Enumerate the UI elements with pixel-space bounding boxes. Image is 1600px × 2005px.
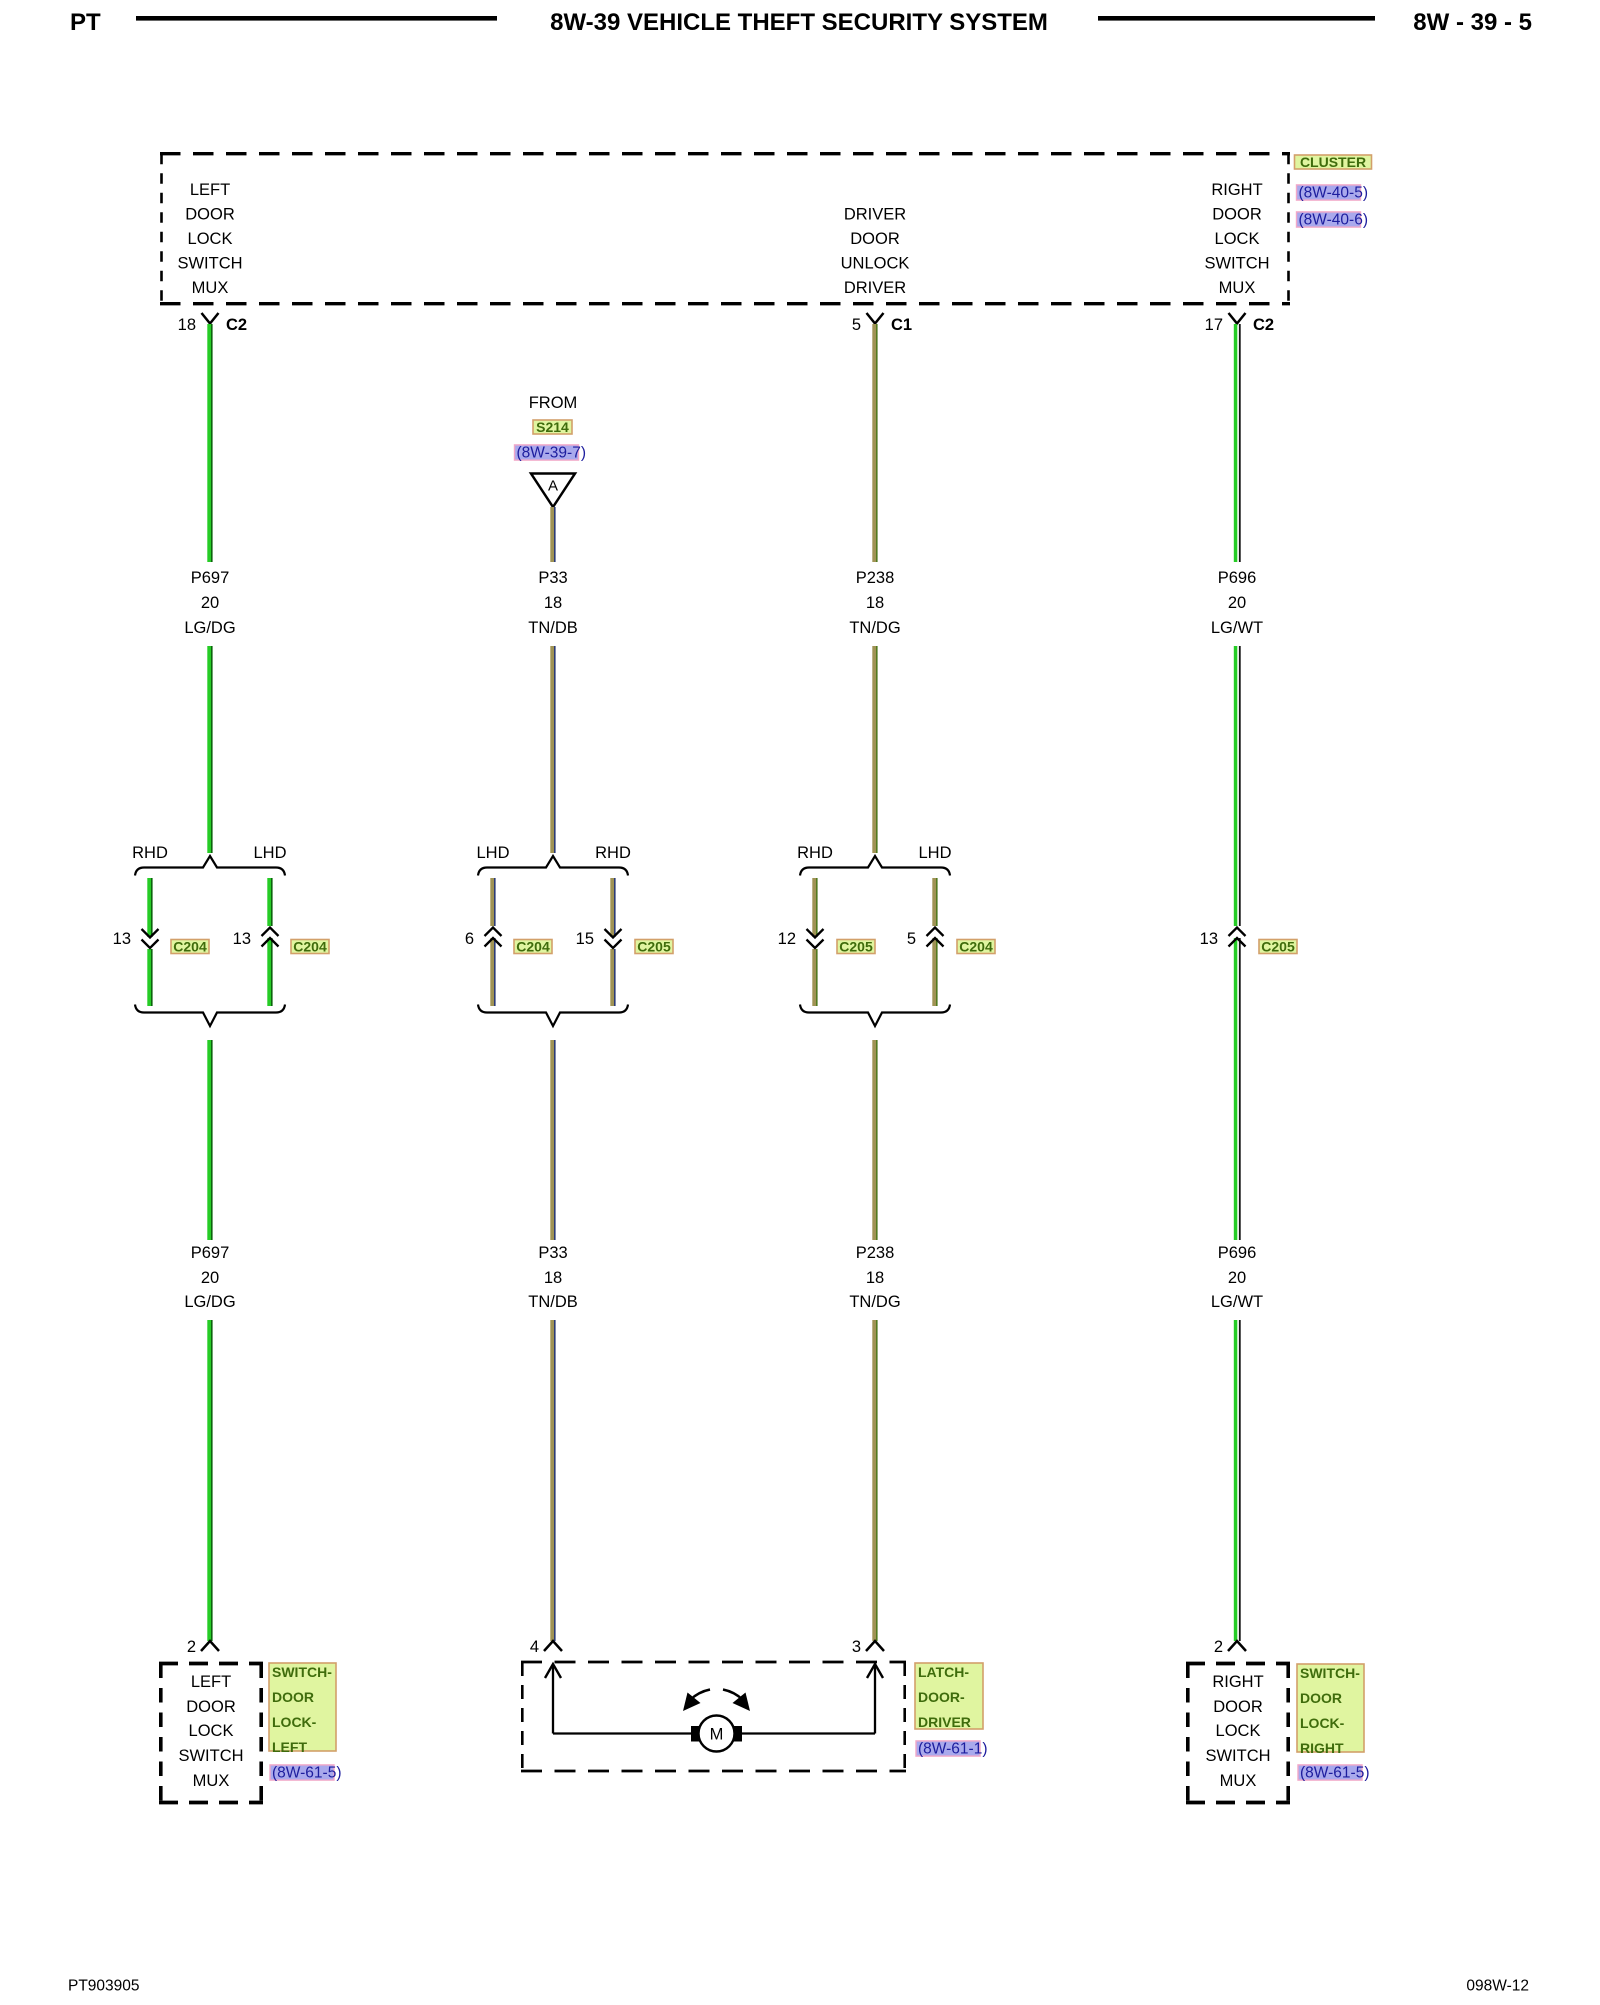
svg-text:2: 2 [1214, 1638, 1223, 1656]
svg-text:SWITCH: SWITCH [1205, 1747, 1270, 1765]
header page id PT [70, 9, 101, 36]
svg-text:P238: P238 [856, 569, 895, 587]
component label C205 [1259, 939, 1297, 955]
svg-text:(8W-61-5): (8W-61-5) [1300, 1765, 1369, 1782]
svg-text:TN/DB: TN/DB [528, 619, 578, 637]
svg-text:MUX: MUX [1219, 279, 1256, 297]
brace merge bottom P238 [800, 1005, 950, 1027]
wire P238 upper segment (TN/DG) [872, 324, 877, 562]
wire label P697 20 LG/DG (upper) [184, 569, 235, 637]
svg-text:LOCK: LOCK [1215, 230, 1260, 248]
page ref (8W-61-1) [916, 1741, 987, 1758]
wire P697 bottom segment (LG/DG) [207, 1320, 212, 1641]
component label C204 [957, 939, 995, 955]
svg-text:DOOR: DOOR [850, 230, 900, 248]
wire P33 upper segment (TN/DB) [550, 507, 555, 562]
svg-text:20: 20 [1228, 1269, 1246, 1287]
svg-text:SWITCH: SWITCH [178, 1747, 243, 1765]
wire P696 mid segment (LG/WT) [1234, 646, 1241, 1240]
svg-text:CLUSTER: CLUSTER [1300, 154, 1366, 170]
svg-text:LHD: LHD [476, 844, 509, 862]
svg-text:LOCK-: LOCK- [1300, 1715, 1345, 1731]
svg-text:LOCK: LOCK [188, 230, 233, 248]
svg-text:SWITCH: SWITCH [177, 255, 242, 273]
svg-text:LG/WT: LG/WT [1211, 1293, 1263, 1311]
branch wire RHD (TN/DB) [610, 878, 615, 1006]
wire label P696 20 LG/WT (upper) [1211, 569, 1263, 637]
component label SWITCH-DOOR LOCK-LEFT [269, 1663, 336, 1755]
svg-text:(8W-40-6): (8W-40-6) [1299, 212, 1368, 229]
svg-text:DOOR: DOOR [185, 206, 235, 224]
svg-text:RIGHT: RIGHT [1212, 1673, 1263, 1691]
header page number [1413, 9, 1532, 36]
svg-text:DOOR: DOOR [272, 1689, 314, 1705]
svg-text:P696: P696 [1218, 1244, 1257, 1262]
svg-text:DOOR: DOOR [1213, 1698, 1263, 1716]
svg-text:LEFT: LEFT [191, 1673, 231, 1691]
wire P33 lower segment (TN/DB) [550, 1040, 555, 1240]
component label S214 [533, 419, 572, 435]
svg-text:RHD: RHD [595, 844, 631, 862]
inline connector 15 C205 (down) [576, 929, 622, 948]
wire label P697 20 LG/DG (lower) [184, 1244, 235, 1311]
LHD label [476, 844, 509, 862]
svg-text:C1: C1 [891, 316, 912, 334]
wire P33 mid segment (TN/DB) [550, 646, 555, 853]
svg-text:LHD: LHD [253, 844, 286, 862]
connector pin 18 C2 [178, 313, 247, 334]
svg-text:8W - 39 - 5: 8W - 39 - 5 [1413, 9, 1532, 36]
footer left [68, 1978, 140, 1995]
page ref (8W-39-7) [515, 445, 586, 462]
svg-text:FROM: FROM [529, 394, 578, 412]
left door lock switch mux dashed box [159, 1664, 263, 1803]
svg-text:MUX: MUX [1220, 1772, 1257, 1790]
component label C205 [837, 939, 875, 955]
svg-text:PT903905: PT903905 [68, 1978, 140, 1995]
svg-text:DOOR: DOOR [1300, 1690, 1342, 1706]
page ref (8W-61-5) left [270, 1765, 341, 1782]
RHD label [797, 844, 833, 862]
svg-text:LEFT: LEFT [190, 181, 230, 199]
wire label P238 18 TN/DG (lower) [849, 1244, 900, 1311]
component label CLUSTER [1295, 154, 1372, 170]
svg-text:5: 5 [907, 930, 916, 948]
svg-text:12: 12 [778, 930, 796, 948]
LHD label [918, 844, 951, 862]
svg-text:MUX: MUX [192, 279, 229, 297]
footer right [1466, 1978, 1529, 1995]
connector pin 17 C2 [1205, 313, 1274, 334]
page ref (8W-61-5) right [1298, 1765, 1369, 1782]
motor M1 [691, 1716, 742, 1752]
svg-text:P33: P33 [538, 569, 567, 587]
svg-text:RIGHT: RIGHT [1300, 1740, 1344, 1756]
svg-text:4: 4 [530, 1638, 539, 1656]
brace merge bottom P697 [135, 1005, 285, 1027]
svg-text:MUX: MUX [193, 1772, 230, 1790]
svg-text:LG/DG: LG/DG [184, 1293, 235, 1311]
svg-text:13: 13 [1200, 930, 1218, 948]
svg-text:20: 20 [201, 594, 219, 612]
wire P238 mid segment (TN/DG) [872, 646, 877, 853]
svg-text:P696: P696 [1218, 569, 1257, 587]
brace split top P238 [800, 856, 950, 876]
right switch text [1205, 1673, 1270, 1790]
inline connector 5 C204 (up) [907, 928, 944, 949]
svg-text:(8W-39-7): (8W-39-7) [517, 445, 586, 462]
svg-text:LOCK: LOCK [189, 1722, 234, 1740]
brace merge bottom P33 [478, 1005, 628, 1027]
svg-text:18: 18 [544, 594, 562, 612]
svg-text:C205: C205 [839, 939, 873, 955]
svg-text:RHD: RHD [132, 844, 168, 862]
svg-text:DRIVER: DRIVER [844, 279, 906, 297]
svg-text:8W-39 VEHICLE THEFT SECURITY S: 8W-39 VEHICLE THEFT SECURITY SYSTEM [550, 9, 1048, 36]
wire P697 lower segment (LG/DG) [207, 1040, 212, 1240]
svg-text:C2: C2 [226, 316, 247, 334]
wire P697 mid segment (LG/DG) [207, 646, 212, 853]
wire label P33 18 TN/DB (upper) [528, 569, 578, 637]
svg-text:P697: P697 [191, 569, 230, 587]
wire label P238 18 TN/DG (upper) [849, 569, 900, 637]
svg-text:DOOR-: DOOR- [918, 1689, 965, 1705]
rotation arrows [683, 1690, 750, 1712]
svg-text:18: 18 [866, 594, 884, 612]
svg-text:20: 20 [1228, 594, 1246, 612]
wire P696 upper segment (LG/WT) [1234, 324, 1241, 562]
svg-text:17: 17 [1205, 316, 1223, 334]
inline connector 13 C205 (up) [1200, 928, 1246, 949]
svg-text:LG/DG: LG/DG [184, 619, 235, 637]
brace split top P697 [135, 856, 285, 876]
svg-text:DOOR: DOOR [1212, 206, 1262, 224]
svg-text:2: 2 [187, 1638, 196, 1656]
svg-text:S214: S214 [536, 419, 569, 435]
header rule left [136, 16, 497, 21]
component label LATCH-DOOR-DRIVER [915, 1663, 983, 1730]
inline connector 13 C204 (up) [233, 928, 279, 949]
connector pin 5 C1 [852, 313, 912, 334]
svg-text:(8W-61-1): (8W-61-1) [918, 1741, 987, 1758]
svg-text:DRIVER: DRIVER [918, 1714, 971, 1730]
RHD label [595, 844, 631, 862]
svg-text:LOCK: LOCK [1216, 1722, 1261, 1740]
branch wire RHD (LG/DG) [147, 878, 152, 1006]
branch wire LHD (TN/DG) [932, 878, 937, 1006]
LHD label [253, 844, 286, 862]
cluster module dashed box [160, 154, 1290, 304]
header rule right [1098, 16, 1375, 21]
component label C204 [291, 939, 329, 955]
svg-text:LEFT: LEFT [272, 1739, 307, 1755]
RHD label [132, 844, 168, 862]
branch wire LHD (LG/DG) [267, 878, 272, 1006]
svg-text:13: 13 [233, 930, 251, 948]
svg-text:18: 18 [178, 316, 196, 334]
connector pin 2 right switch [1214, 1638, 1246, 1656]
component label SWITCH-DOOR LOCK-RIGHT [1297, 1664, 1364, 1756]
svg-text:P697: P697 [191, 1244, 230, 1262]
latch door driver dashed box [521, 1662, 906, 1771]
svg-text:LATCH-: LATCH- [918, 1664, 969, 1680]
cluster pin name: left door lock switch mux [177, 181, 242, 297]
svg-text:LHD: LHD [918, 844, 951, 862]
page ref (8W-40-6) [1297, 212, 1368, 229]
svg-text:TN/DG: TN/DG [849, 1293, 900, 1311]
inline connector 12 C205 (down) [778, 929, 824, 948]
svg-text:13: 13 [113, 930, 131, 948]
svg-text:3: 3 [852, 1638, 861, 1656]
header title [550, 9, 1048, 36]
svg-text:PT: PT [70, 9, 101, 36]
off-page connector triangle A [531, 474, 575, 508]
motor circuit wire [553, 1732, 875, 1734]
svg-text:SWITCH: SWITCH [1204, 255, 1269, 273]
svg-text:A: A [548, 478, 558, 495]
component label C204 [514, 939, 552, 955]
wire P697 upper segment (LG/DG) [207, 324, 212, 562]
svg-text:6: 6 [465, 930, 474, 948]
svg-text:TN/DG: TN/DG [849, 619, 900, 637]
component label C205 [635, 939, 673, 955]
svg-text:(8W-61-5): (8W-61-5) [272, 1765, 341, 1782]
svg-text:M: M [710, 1726, 724, 1744]
wire P238 lower segment (TN/DG) [872, 1040, 877, 1240]
svg-text:SWITCH-: SWITCH- [272, 1664, 332, 1680]
svg-text:C204: C204 [516, 939, 550, 955]
inline connector 13 C204 (down) [113, 929, 159, 948]
branch wire LHD (TN/DB) [490, 878, 495, 1006]
svg-text:18: 18 [544, 1269, 562, 1287]
connector pin 3 latch [852, 1638, 884, 1656]
svg-text:LG/WT: LG/WT [1211, 619, 1263, 637]
svg-text:DRIVER: DRIVER [844, 206, 906, 224]
svg-text:C2: C2 [1253, 316, 1274, 334]
wire label P696 20 LG/WT (lower) [1211, 1244, 1263, 1311]
right door lock switch mux dashed box [1186, 1664, 1290, 1803]
svg-text:RHD: RHD [797, 844, 833, 862]
svg-text:5: 5 [852, 316, 861, 334]
svg-text:(8W-40-5): (8W-40-5) [1299, 185, 1368, 202]
svg-text:P238: P238 [856, 1244, 895, 1262]
svg-text:UNLOCK: UNLOCK [841, 255, 910, 273]
latch internal pin arrow 3 [867, 1664, 883, 1734]
wire label P33 18 TN/DB (lower) [528, 1244, 578, 1311]
svg-text:098W-12: 098W-12 [1466, 1978, 1529, 1995]
wire P33 bottom segment (TN/DB) [550, 1320, 555, 1641]
cluster pin name: right door lock switch mux [1204, 181, 1269, 297]
left switch text [178, 1673, 243, 1790]
svg-text:C204: C204 [959, 939, 993, 955]
svg-text:18: 18 [866, 1269, 884, 1287]
component label C204 [171, 939, 209, 955]
svg-text:C204: C204 [293, 939, 327, 955]
svg-text:C205: C205 [637, 939, 671, 955]
svg-text:C205: C205 [1261, 939, 1295, 955]
svg-text:SWITCH-: SWITCH- [1300, 1665, 1360, 1681]
wire P238 bottom segment (TN/DG) [872, 1320, 877, 1641]
connector pin 2 left switch [187, 1638, 219, 1656]
page ref (8W-40-5) [1297, 185, 1368, 202]
connector pin 4 latch [530, 1638, 562, 1656]
svg-text:TN/DB: TN/DB [528, 1293, 578, 1311]
wire P696 bottom segment (LG/WT) [1234, 1320, 1241, 1641]
svg-text:P33: P33 [538, 1244, 567, 1262]
svg-text:20: 20 [201, 1269, 219, 1287]
inline connector 6 C204 (up) [465, 928, 502, 949]
latch internal pin arrow 4 [545, 1664, 561, 1734]
svg-text:RIGHT: RIGHT [1211, 181, 1262, 199]
svg-text:LOCK-: LOCK- [272, 1714, 317, 1730]
svg-text:DOOR: DOOR [186, 1698, 236, 1716]
svg-text:C204: C204 [173, 939, 207, 955]
from S214 note [529, 394, 578, 412]
svg-text:15: 15 [576, 930, 594, 948]
branch wire RHD (TN/DG) [812, 878, 817, 1006]
cluster pin name: driver door unlock driver [841, 206, 910, 298]
brace split top P33 [478, 856, 628, 876]
